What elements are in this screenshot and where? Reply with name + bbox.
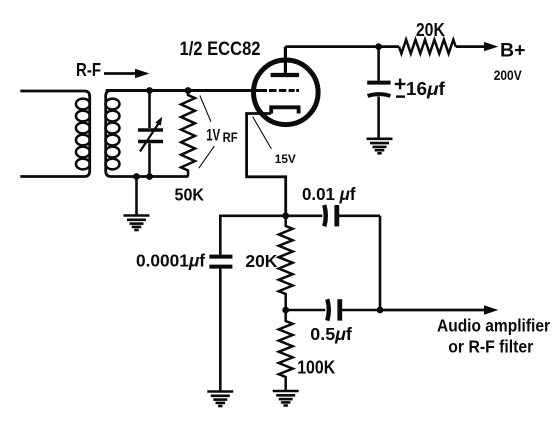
svg-text:100K: 100K [297, 357, 336, 378]
node (cathode/RC junction) [282, 212, 289, 219]
minus sign (16uf) [396, 95, 405, 97]
ground (16uf) [367, 139, 393, 154]
node (bottom wire var-cap tap) [146, 173, 153, 180]
node (plate/20K/16uf junction) [375, 43, 382, 50]
svg-text:0.0001μf: 0.0001μf [136, 251, 205, 271]
resistor R2 20K [399, 40, 456, 54]
triode cathode [271, 107, 298, 113]
R-F input arrow [104, 69, 150, 79]
capacitor C3 0.0001uf [209, 257, 232, 391]
capacitor C4 0.01uf [324, 205, 380, 226]
ground (0.0001uf) [207, 392, 233, 407]
wire: cathode lead [247, 114, 286, 217]
output wire + arrow [380, 305, 498, 314]
wire: secondary bottom to ground tap [135, 177, 138, 215]
variable capacitor C1 [138, 91, 163, 177]
transformer T1 primary winding [20, 91, 90, 177]
node (bottom wire ground tap) [133, 173, 140, 180]
ground (100K) [273, 391, 299, 406]
leader line (15V) [253, 117, 272, 149]
node (output junction) [377, 307, 384, 314]
capacitor C5 0.5uf [327, 299, 380, 320]
svg-text:200V: 200V [494, 68, 523, 83]
svg-text:RF: RF [223, 130, 238, 145]
svg-text:R-F: R-F [76, 60, 101, 80]
resistor R1 50K [181, 91, 195, 177]
wire: node to 0.5uf [286, 309, 326, 312]
leader line (1V RF bottom) [199, 146, 215, 168]
svg-text:B+: B+ [500, 41, 526, 62]
svg-text:1/2 ECC82: 1/2 ECC82 [180, 39, 261, 60]
resistor R3 20K (vertical) [279, 216, 293, 310]
node (top wire var-cap tap) [146, 87, 153, 94]
wire + arrow to B+ [456, 42, 499, 51]
svg-text:0.5μf: 0.5μf [310, 324, 352, 344]
wire: junction left to 0.0001uf [220, 216, 285, 255]
svg-text:50K: 50K [175, 185, 205, 205]
svg-text:16μf: 16μf [406, 79, 446, 99]
triode grid (dashed) [269, 89, 299, 92]
transformer T1 secondary winding [106, 91, 252, 177]
svg-text:20K: 20K [245, 251, 277, 271]
wire: plate to B+ branch [285, 45, 399, 48]
node (20K/100K/0.5uf junction) [282, 307, 289, 314]
wire: grid to transformer secondary [106, 89, 267, 92]
svg-text:1V: 1V [206, 127, 220, 145]
node (top wire 50K tap) [185, 87, 192, 94]
leader line (1V RF top) [200, 96, 211, 122]
wire: junction right to 0.01uf [286, 215, 323, 218]
svg-text:or R-F filter: or R-F filter [448, 337, 533, 357]
triode U1 envelope [253, 60, 318, 125]
ground (transformer secondary) [124, 216, 150, 231]
wire: right vertical down to output node [379, 216, 382, 310]
svg-text:15V: 15V [275, 152, 297, 166]
svg-text:Audio amplifier: Audio amplifier [437, 316, 550, 336]
label 1V RF [206, 127, 237, 145]
resistor R4 100K [279, 310, 293, 390]
svg-text:0.01 μf: 0.01 μf [302, 184, 356, 204]
plus sign (16uf) [395, 79, 406, 90]
svg-text:20K: 20K [416, 20, 445, 40]
triode plate [271, 47, 300, 75]
capacitor C2 16uf (electrolytic) [367, 47, 390, 138]
